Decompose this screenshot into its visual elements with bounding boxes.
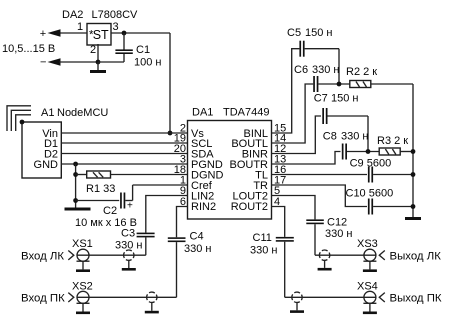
label A1 NodeMCU — [41, 107, 108, 119]
minus input arrow — [40, 57, 61, 69]
pin SCL — [174, 133, 213, 151]
svg-text:330 н: 330 н — [325, 228, 352, 240]
wire ROUT2 to C11 — [272, 207, 285, 237]
svg-text:C4: C4 — [190, 231, 204, 243]
pin BINR — [242, 143, 287, 161]
connector XS4 — [363, 291, 384, 303]
pin RIN2 — [180, 196, 216, 213]
svg-text:C10 5600: C10 5600 — [346, 188, 394, 200]
antenna symbol — [7, 106, 31, 131]
pin Cref — [180, 175, 213, 193]
svg-text:+: + — [40, 28, 46, 40]
svg-text:150 н: 150 н — [305, 27, 332, 39]
label R3 2 k — [377, 135, 408, 147]
node R1 tap — [73, 172, 78, 177]
label Vhod PK — [21, 293, 65, 305]
svg-text:330 н: 330 н — [341, 131, 368, 143]
label Vyhod PK — [390, 293, 442, 305]
wire TR to C10 — [272, 185, 368, 207]
shield screen XS4 — [290, 292, 304, 313]
wire XS2 to C4 — [77, 296, 177, 298]
ground XS4 — [363, 303, 377, 314]
ground XS2 — [76, 303, 90, 314]
svg-text:1: 1 — [77, 21, 83, 33]
node C1 top junction — [122, 31, 127, 36]
wire RIN2 to C4 — [177, 207, 188, 238]
wire C7 down to node B — [367, 116, 369, 152]
label C7 150 n — [314, 93, 359, 105]
pin 2 label — [90, 44, 96, 56]
pin PGND — [180, 154, 223, 172]
capacitor C4 — [168, 237, 186, 297]
wire TL to C9 — [272, 174, 368, 176]
svg-text:10,5...15 В: 10,5...15 В — [2, 43, 55, 55]
svg-text:ROUT2: ROUT2 — [231, 201, 268, 213]
svg-text:XS1: XS1 — [72, 238, 93, 250]
capacitor C12 — [306, 219, 324, 255]
connector XS2 — [68, 291, 89, 303]
svg-text:C5: C5 — [287, 27, 301, 39]
node minus junction — [96, 60, 101, 65]
capacitor C2 — [76, 185, 188, 212]
label C12 330 n — [325, 217, 352, 241]
wire BOUTR to C8 — [272, 152, 341, 165]
svg-text:100 н: 100 н — [134, 57, 161, 69]
connector XS3 — [363, 249, 384, 261]
svg-text:TDA7449: TDA7449 — [223, 107, 269, 119]
capacitor C5 — [299, 41, 339, 57]
capacitor C7 — [322, 108, 368, 124]
node GND junction — [73, 162, 78, 167]
pin LIN2 — [180, 185, 214, 203]
capacitor C8 — [342, 144, 379, 160]
svg-text:C9 5600: C9 5600 — [350, 158, 392, 170]
svg-text:A1: A1 — [41, 107, 54, 119]
op-amp chip DA1 box — [188, 121, 272, 220]
node A — [337, 82, 342, 87]
label 10,5...15 V — [2, 43, 55, 55]
svg-text:R2 2 к: R2 2 к — [346, 66, 377, 78]
svg-text:330 н: 330 н — [250, 245, 277, 257]
capacitor C11 — [276, 237, 294, 297]
ground NodeMCU — [65, 208, 91, 211]
pin 1 label — [77, 21, 83, 33]
wire pin 2 down — [97, 44, 99, 62]
label XS2 — [72, 281, 93, 293]
wire D2 to SDA — [61, 153, 187, 155]
svg-text:+: + — [127, 201, 133, 212]
capacitor C9 — [368, 167, 413, 183]
pin BOUTL — [231, 133, 286, 151]
wire C5 down to node A — [338, 49, 340, 84]
wire D1 to SCL — [61, 142, 187, 144]
svg-text:DA2: DA2 — [62, 9, 83, 21]
wire ground rail right — [412, 84, 414, 217]
wire BINR to C7 — [272, 116, 322, 154]
label C10 5600 — [346, 188, 394, 200]
svg-text:Выход ПК: Выход ПК — [390, 293, 442, 305]
shield screen XS3 — [318, 250, 332, 271]
pin TR — [253, 175, 286, 193]
pin Vin label — [42, 128, 58, 140]
svg-text:330 н: 330 н — [312, 64, 339, 76]
resistor R3 — [379, 148, 413, 155]
wire LOUT2 to C12 — [272, 196, 316, 220]
ground regulator — [90, 62, 106, 73]
label C4 330 n — [184, 231, 211, 256]
capacitor C3 — [137, 233, 155, 256]
label C2 10uF — [75, 205, 137, 229]
capacitor C1 — [98, 33, 133, 62]
svg-text:C8: C8 — [323, 131, 337, 143]
pin BINL — [244, 123, 287, 141]
shield screen XS2 — [145, 292, 159, 313]
pin ROUT2 — [231, 196, 280, 213]
svg-text:Вход ЛК: Вход ЛК — [21, 251, 64, 263]
svg-text:L7808CV: L7808CV — [92, 9, 139, 21]
svg-text:XS4: XS4 — [357, 281, 378, 293]
label C8 330 n — [323, 131, 369, 143]
svg-text:XS2: XS2 — [72, 281, 93, 293]
label C3 330 n — [115, 228, 142, 252]
resistor R1 — [76, 171, 188, 178]
node R3 rail junction — [411, 149, 416, 154]
pin LOUT2 — [233, 185, 281, 203]
wire plus input to pin 1 — [59, 32, 87, 34]
svg-text:Выход ЛК: Выход ЛК — [390, 251, 442, 263]
node C2 tap — [73, 198, 78, 203]
pin GND label — [34, 159, 59, 171]
wire XS1 to C3 — [77, 254, 146, 256]
label Vyhod LK — [390, 251, 442, 263]
voltage regulator DA2 box — [87, 24, 111, 46]
svg-text:150 н: 150 н — [331, 93, 358, 105]
svg-text:XS3: XS3 — [357, 238, 378, 250]
svg-text:C7: C7 — [314, 93, 328, 105]
svg-text:R3 2 к: R3 2 к — [377, 135, 408, 147]
pin D2 label — [44, 149, 58, 161]
plus input arrow — [40, 28, 61, 40]
wire LIN2 to C3 — [146, 196, 188, 233]
label R1 33 — [86, 183, 115, 195]
svg-text:GND: GND — [34, 159, 59, 171]
capacitor C6 — [313, 76, 350, 92]
label C5 150 n — [287, 27, 332, 39]
node B — [366, 149, 371, 154]
svg-text:3: 3 — [113, 21, 119, 33]
resistor R2 — [350, 81, 413, 88]
svg-text:C6: C6 — [294, 64, 308, 76]
connector XS1 — [68, 249, 89, 261]
pin 3 label — [113, 21, 119, 33]
svg-text:C2: C2 — [103, 205, 117, 217]
pin D1 label — [44, 138, 58, 150]
label C6 330 n — [294, 64, 339, 76]
label Vhod LK — [21, 251, 64, 263]
node C9 rail junction — [411, 172, 416, 177]
label XS1 — [72, 238, 93, 250]
pin SDA — [174, 143, 215, 161]
wire BINL to C5 — [272, 49, 300, 133]
label C11 330 n — [250, 232, 277, 257]
wire ground net down — [75, 164, 77, 208]
svg-text:NodeMCU: NodeMCU — [57, 107, 108, 119]
label C1 100 n — [134, 44, 161, 69]
wire C11 to XS4 — [285, 296, 376, 298]
svg-text:C1: C1 — [136, 44, 150, 56]
wire C12 to XS3 — [315, 254, 376, 256]
shield screen XS1 — [122, 250, 136, 271]
svg-text:C3: C3 — [121, 228, 135, 240]
label C9 5600 — [350, 158, 392, 170]
svg-text:2: 2 — [90, 44, 96, 56]
pin TL — [255, 164, 286, 182]
svg-text:ST: ST — [93, 28, 109, 42]
svg-text:330 н: 330 н — [184, 243, 211, 255]
label DA2 L7808CV — [62, 9, 138, 21]
wire BOUTL to C6 — [272, 84, 314, 143]
pin Vs — [180, 123, 204, 141]
capacitor C10 — [368, 199, 413, 215]
svg-text:Вход ПК: Вход ПК — [21, 293, 65, 305]
ground XS1 — [76, 261, 90, 272]
label XS4 — [357, 281, 378, 293]
node antenna corner — [20, 120, 25, 125]
wire pin 3 to rail — [111, 32, 170, 34]
svg-text:−: − — [40, 57, 46, 69]
ground XS3 — [363, 261, 377, 272]
wire Vin to Vs — [61, 132, 187, 134]
svg-text:DA1: DA1 — [192, 107, 213, 119]
wire GND to PGND — [61, 163, 187, 165]
pin BOUTR — [230, 154, 287, 172]
node Vs junction — [168, 131, 173, 136]
svg-text:C11: C11 — [253, 232, 272, 244]
wire regulator output down to Vs — [169, 33, 171, 133]
pin DGND — [174, 164, 224, 182]
ground rail — [405, 217, 421, 220]
label R2 2 k — [346, 66, 377, 78]
svg-text:R1 33: R1 33 — [86, 183, 115, 195]
wire minus line — [59, 61, 98, 63]
label XS3 — [357, 238, 378, 250]
svg-text:C12: C12 — [327, 217, 347, 229]
label DA1 TDA7449 — [192, 107, 269, 119]
module A1 box — [22, 122, 61, 178]
node C10 rail junction — [411, 204, 416, 209]
svg-text:RIN2: RIN2 — [191, 201, 216, 213]
